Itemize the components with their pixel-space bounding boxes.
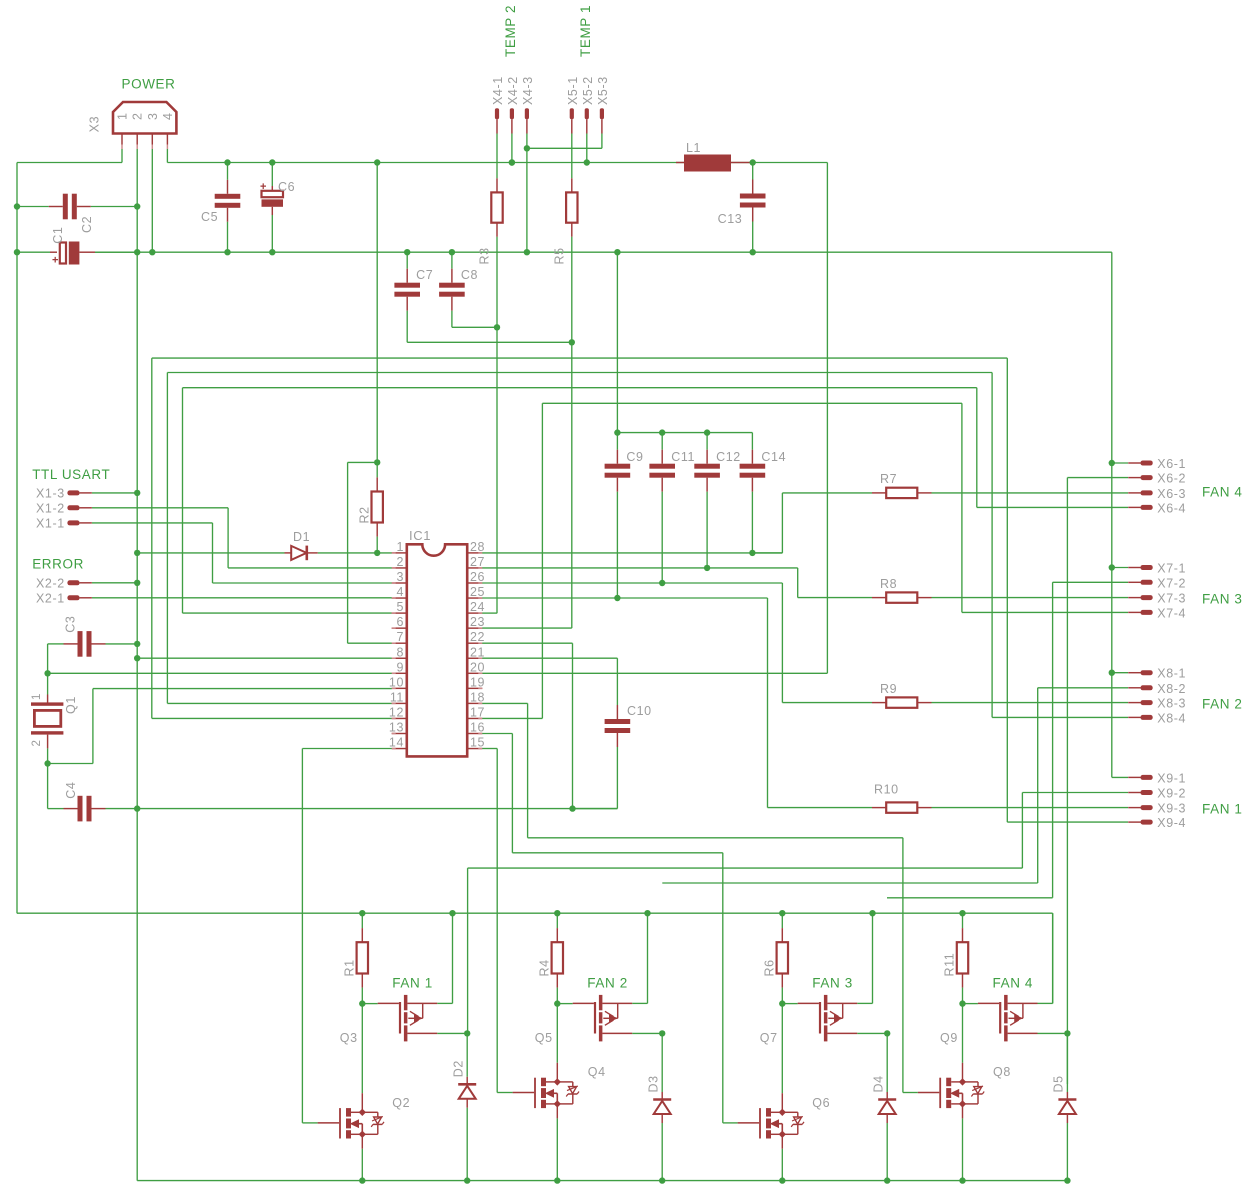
svg-text:X8-1: X8-1 xyxy=(1157,667,1186,681)
svg-text:FAN 3: FAN 3 xyxy=(1202,592,1243,607)
svg-text:15: 15 xyxy=(470,736,485,750)
svg-text:Q9: Q9 xyxy=(940,1031,958,1045)
svg-text:R9: R9 xyxy=(880,682,897,696)
svg-text:3: 3 xyxy=(146,112,160,120)
svg-text:1: 1 xyxy=(31,693,43,700)
svg-text:FAN 2: FAN 2 xyxy=(587,976,628,991)
svg-text:Q8: Q8 xyxy=(993,1065,1011,1079)
svg-text:7: 7 xyxy=(396,630,404,644)
svg-text:22: 22 xyxy=(470,630,485,644)
svg-text:Q6: Q6 xyxy=(812,1096,830,1110)
svg-text:10: 10 xyxy=(389,675,404,689)
svg-text:4: 4 xyxy=(396,585,404,599)
svg-text:L1: L1 xyxy=(686,141,701,155)
svg-text:18: 18 xyxy=(470,690,485,704)
svg-text:R11: R11 xyxy=(943,953,957,977)
svg-text:20: 20 xyxy=(470,660,485,674)
svg-text:X1-1: X1-1 xyxy=(36,516,65,530)
svg-text:POWER: POWER xyxy=(122,77,176,92)
svg-text:25: 25 xyxy=(470,585,485,599)
svg-text:D1: D1 xyxy=(293,530,310,544)
svg-text:C2: C2 xyxy=(80,216,94,233)
svg-text:17: 17 xyxy=(470,705,485,719)
svg-text:C7: C7 xyxy=(416,268,433,282)
svg-text:FAN 3: FAN 3 xyxy=(812,976,853,991)
svg-text:C12: C12 xyxy=(716,450,741,464)
svg-text:2: 2 xyxy=(131,112,145,120)
svg-text:Q4: Q4 xyxy=(588,1065,606,1079)
svg-text:X9-4: X9-4 xyxy=(1157,816,1186,830)
svg-text:X7-2: X7-2 xyxy=(1157,576,1186,590)
svg-text:X5-2: X5-2 xyxy=(581,76,595,105)
svg-text:C9: C9 xyxy=(626,450,643,464)
svg-text:C6: C6 xyxy=(278,180,295,194)
svg-text:X8-4: X8-4 xyxy=(1157,711,1186,725)
svg-text:Q1: Q1 xyxy=(64,696,78,714)
svg-text:28: 28 xyxy=(470,540,485,554)
svg-text:C3: C3 xyxy=(63,616,77,633)
svg-text:R2: R2 xyxy=(358,506,372,523)
svg-text:C10: C10 xyxy=(627,704,652,718)
svg-text:FAN 4: FAN 4 xyxy=(993,976,1034,991)
svg-text:Q5: Q5 xyxy=(535,1031,553,1045)
svg-text:19: 19 xyxy=(470,675,485,689)
svg-text:X6-2: X6-2 xyxy=(1157,472,1186,486)
svg-text:16: 16 xyxy=(470,721,485,735)
svg-text:X4-2: X4-2 xyxy=(506,76,520,105)
svg-text:R3: R3 xyxy=(478,247,492,264)
svg-text:X8-3: X8-3 xyxy=(1157,697,1186,711)
svg-text:C8: C8 xyxy=(461,268,478,282)
svg-text:26: 26 xyxy=(470,570,485,584)
svg-text:23: 23 xyxy=(470,615,485,629)
svg-text:D2: D2 xyxy=(452,1060,466,1077)
svg-text:X7-3: X7-3 xyxy=(1157,592,1186,606)
svg-text:6: 6 xyxy=(396,615,404,629)
svg-text:+: + xyxy=(52,255,58,267)
svg-text:X5-1: X5-1 xyxy=(566,76,580,105)
svg-text:C14: C14 xyxy=(761,450,786,464)
svg-text:C1: C1 xyxy=(51,227,65,244)
svg-text:9: 9 xyxy=(396,660,404,674)
svg-text:R5: R5 xyxy=(552,247,566,264)
svg-text:X1-3: X1-3 xyxy=(36,486,65,500)
svg-text:X2-2: X2-2 xyxy=(36,576,65,590)
svg-text:X2-1: X2-1 xyxy=(36,591,65,605)
svg-text:X7-1: X7-1 xyxy=(1157,562,1186,576)
svg-text:X8-2: X8-2 xyxy=(1157,682,1186,696)
svg-text:11: 11 xyxy=(390,690,404,704)
svg-text:D3: D3 xyxy=(647,1075,661,1092)
svg-text:D5: D5 xyxy=(1052,1075,1066,1092)
svg-text:R8: R8 xyxy=(880,577,897,591)
svg-text:R1: R1 xyxy=(342,959,356,976)
svg-text:14: 14 xyxy=(389,736,404,750)
svg-text:ERROR: ERROR xyxy=(32,557,84,572)
svg-text:5: 5 xyxy=(396,600,404,614)
svg-text:Q7: Q7 xyxy=(760,1031,778,1045)
svg-text:27: 27 xyxy=(470,555,485,569)
svg-text:2: 2 xyxy=(31,740,43,747)
svg-text:1: 1 xyxy=(116,112,130,120)
svg-text:R4: R4 xyxy=(537,959,551,976)
svg-text:FAN 1: FAN 1 xyxy=(392,976,433,991)
svg-text:+: + xyxy=(260,181,266,193)
svg-text:X1-2: X1-2 xyxy=(36,501,65,515)
svg-text:Q2: Q2 xyxy=(392,1096,410,1110)
svg-text:3: 3 xyxy=(396,570,404,584)
svg-text:X5-3: X5-3 xyxy=(596,76,610,105)
svg-text:X9-2: X9-2 xyxy=(1157,787,1186,801)
svg-text:X7-4: X7-4 xyxy=(1157,606,1186,620)
svg-text:C5: C5 xyxy=(201,210,218,224)
svg-text:TTL USART: TTL USART xyxy=(32,467,110,482)
svg-text:X9-3: X9-3 xyxy=(1157,802,1186,816)
svg-text:4: 4 xyxy=(161,112,175,120)
svg-text:8: 8 xyxy=(396,645,404,659)
svg-text:C4: C4 xyxy=(64,782,78,799)
svg-text:Q3: Q3 xyxy=(340,1031,358,1045)
svg-text:FAN 1: FAN 1 xyxy=(1202,802,1243,817)
svg-text:X4-3: X4-3 xyxy=(521,76,535,105)
svg-text:TEMP 2: TEMP 2 xyxy=(503,5,518,57)
svg-text:TEMP 1: TEMP 1 xyxy=(578,5,593,57)
svg-text:2: 2 xyxy=(396,555,404,569)
svg-text:24: 24 xyxy=(470,600,485,614)
svg-text:X6-3: X6-3 xyxy=(1157,487,1186,501)
svg-text:13: 13 xyxy=(389,721,404,735)
svg-text:R10: R10 xyxy=(874,782,899,796)
svg-text:1: 1 xyxy=(396,540,404,554)
svg-text:D4: D4 xyxy=(872,1075,886,1092)
svg-text:FAN 4: FAN 4 xyxy=(1202,485,1243,500)
svg-text:X9-1: X9-1 xyxy=(1157,771,1186,785)
svg-text:X6-1: X6-1 xyxy=(1157,457,1186,471)
svg-text:R7: R7 xyxy=(880,472,897,486)
svg-text:X6-4: X6-4 xyxy=(1157,501,1186,515)
svg-text:IC1: IC1 xyxy=(409,528,431,543)
svg-text:12: 12 xyxy=(389,705,404,719)
svg-text:C11: C11 xyxy=(671,450,695,464)
svg-text:FAN 2: FAN 2 xyxy=(1202,697,1243,712)
svg-text:21: 21 xyxy=(470,645,485,659)
svg-text:X3: X3 xyxy=(88,116,102,133)
svg-text:C13: C13 xyxy=(718,212,743,226)
svg-text:X4-1: X4-1 xyxy=(491,76,505,105)
svg-text:R6: R6 xyxy=(762,959,776,976)
